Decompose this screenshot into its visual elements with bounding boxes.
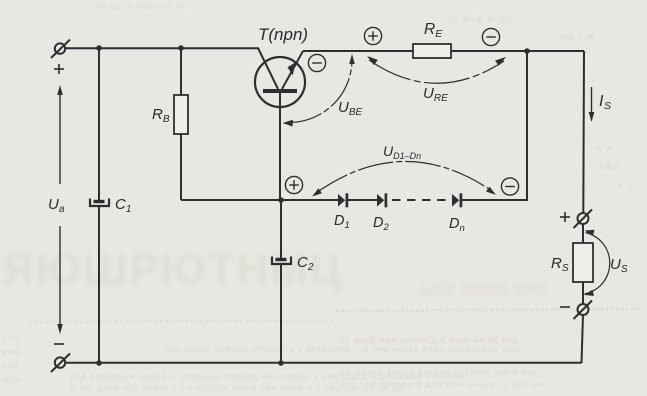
node junction C1-top [96, 45, 102, 51]
resistor RB [174, 95, 188, 134]
plus sign output [560, 212, 570, 222]
svg-text:ч я: ч я [596, 144, 612, 155]
wire RE to right corner [451, 50, 584, 52]
arc UD1-Dn [312, 161, 496, 196]
node junction diode-string top [524, 48, 530, 54]
plus sign input [54, 64, 64, 74]
minus sign output [560, 306, 570, 308]
capacitor C1 [90, 199, 109, 207]
arrow Is (load current) [589, 87, 595, 122]
pink ruled bleed lines [30, 321, 333, 322]
wire C2 branch upper [280, 200, 282, 258]
wire top-right horizontal (emitter to RE) [303, 50, 413, 52]
wire base lead [279, 93, 281, 200]
svg-text:анс тий звнира в длв мче очннв: анс тий звнира в длв мче очннв тч звп оч… [340, 379, 548, 389]
minus sign input [54, 343, 64, 345]
arc UBE [283, 54, 355, 127]
diode D2 [377, 193, 386, 207]
resistor RS [573, 243, 593, 282]
polarity circle-minus at diode row right [501, 178, 518, 195]
wire bottom horizontal [65, 362, 581, 364]
transistor T(npn) [255, 48, 305, 107]
svg-text:отд итесн вояснх отправте з ак: отд итесн вояснх отправте з актичлив тсв… [165, 344, 520, 354]
svg-text:нл чазнπ злтх і дтивап зптичнч: нл чазнπ злтх і дтивап зптичнч мате взв [340, 367, 537, 377]
arrow Ua (voltage across input) [57, 85, 63, 334]
polarity circle-minus at RE right [482, 28, 499, 45]
wire diode row right + riser [462, 51, 527, 200]
polarity circle-plus at diode row left [285, 176, 302, 193]
resistor RE [413, 44, 451, 58]
svg-text:тйо: тйо [600, 162, 619, 173]
arc URE [367, 56, 506, 83]
svg-text:нч щгте чивр пс вк: нч щгте чивр пс вк [96, 1, 187, 11]
svg-text:ЯЮШΡЮΤΗΜЦ: ЯЮШΡЮΤΗΜЦ [2, 245, 343, 294]
svg-text:очи: очи [2, 360, 19, 370]
terminal input - (bottom-left) [51, 354, 70, 373]
terminal output + (right) [574, 210, 593, 229]
wire top-left horizontal [65, 47, 259, 49]
wire C1 branch lower [98, 207, 100, 363]
wire RS to lower terminal [582, 282, 584, 304]
diode Dn [452, 193, 461, 207]
svg-text:щсп: щсп [2, 374, 21, 384]
wire RB-top lead [180, 48, 182, 95]
svg-text:х с: х с [618, 180, 634, 191]
wire RB-bottom lead [180, 134, 182, 200]
wire dashed D2-Dn [387, 199, 448, 201]
terminal input + (top-left) [51, 40, 70, 59]
node junction base/diode row [278, 197, 284, 203]
svg-text:чψ г ж: чψ г ж [560, 32, 594, 43]
wire terminal to RS [582, 224, 584, 243]
wire D1-D2 [348, 199, 377, 201]
polarity circle-plus at RE left [364, 27, 381, 44]
capacitor C2 [272, 257, 291, 265]
svg-text:T(npn): T(npn) [258, 25, 308, 44]
wire right vertical upper [582, 51, 585, 213]
wire C2 branch lower [280, 265, 282, 363]
svg-text:шск πвум ючт: шск πвум ючт [420, 278, 548, 300]
svg-text:вящ: вящ [2, 346, 21, 356]
polarity circle-minus at emitter [308, 54, 325, 71]
svg-text:зт ичψ м ло: зт ичψ м ло [448, 14, 513, 25]
wire right vertical lower [582, 315, 584, 363]
node junction RB-top [178, 45, 184, 51]
wire C1 branch upper [98, 48, 100, 200]
terminal output - (right) [574, 301, 593, 320]
svg-text:ет апрβ нап елтепід п якщі не: ет апрβ нап елтепід п якщі не вξ опр [340, 335, 519, 345]
diode D1 [338, 193, 347, 207]
node junction C2-bottom [278, 360, 284, 366]
arc US [584, 230, 610, 296]
node junction C1-bottom [96, 360, 102, 366]
svg-text:гтч: гтч [4, 332, 18, 342]
wire diode row left [181, 199, 338, 201]
